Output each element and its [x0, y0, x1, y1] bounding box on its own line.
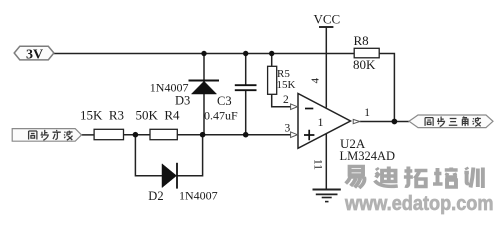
svg-text:3V: 3V: [26, 47, 43, 62]
svg-text:15K R3: 15K R3: [80, 108, 124, 123]
svg-text:3: 3: [285, 122, 291, 134]
svg-text:1N4007: 1N4007: [150, 80, 189, 94]
svg-text:4: 4: [309, 78, 321, 84]
svg-text:www.edatop.com: www.edatop.com: [344, 193, 493, 215]
svg-text:11: 11: [311, 159, 323, 170]
svg-text:D3: D3: [175, 94, 190, 108]
svg-text:1: 1: [318, 115, 324, 129]
svg-text:LM324AD: LM324AD: [340, 149, 396, 163]
svg-text:D2: D2: [148, 189, 163, 203]
svg-text:15K: 15K: [277, 79, 296, 91]
svg-text:R8: R8: [354, 33, 369, 48]
svg-text:1: 1: [364, 107, 370, 119]
svg-text:C3: C3: [217, 94, 232, 108]
svg-text:80K: 80K: [353, 57, 376, 72]
svg-text:1N4007: 1N4007: [179, 189, 218, 203]
svg-text:2: 2: [283, 94, 289, 106]
svg-text:VCC: VCC: [314, 12, 341, 27]
svg-text:50K R4: 50K R4: [136, 108, 181, 123]
svg-text:0.47uF: 0.47uF: [204, 109, 238, 123]
